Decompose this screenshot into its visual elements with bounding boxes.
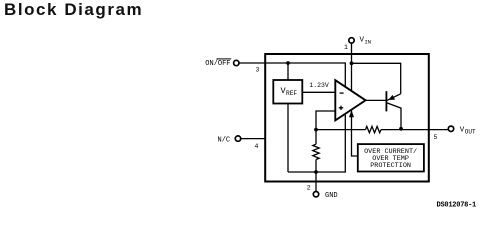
svg-text:OUT: OUT — [465, 129, 476, 136]
terminal VIN pin 1 — [349, 38, 354, 43]
protection block box — [358, 144, 424, 171]
wire amp minus input from VREF — [302, 91, 336, 93]
title "Block Diagram" — [4, 0, 143, 20]
terminal VOUT pin 5 — [448, 126, 453, 131]
transistor Q1 emitter diagonal — [387, 94, 401, 101]
terminal GND pin 2 — [313, 192, 318, 197]
wire VREF tap from ON/OFF line — [287, 63, 289, 80]
junction dot output — [399, 127, 403, 131]
wire VREF bottom to ground rail — [287, 104, 289, 173]
junction dot ground — [314, 170, 318, 174]
svg-text:3: 3 — [256, 66, 260, 73]
junction node feedback — [314, 128, 318, 132]
arrow protection into op-amp — [349, 110, 354, 117]
junction dot ON/OFF-VREF — [286, 61, 290, 65]
svg-text:1.23V: 1.23V — [309, 82, 329, 89]
svg-text:IN: IN — [365, 39, 372, 46]
wire base lead from amp output to Q1 — [366, 99, 386, 101]
terminal N/C pin 4 — [235, 136, 240, 141]
wire feedback node down to R2 — [315, 130, 317, 172]
wire GND terminal drop pin 2 — [315, 172, 317, 191]
transistor Q1 base bar — [385, 91, 387, 111]
svg-text:5: 5 — [434, 134, 438, 141]
transistor Q1 collector to output node — [387, 103, 401, 129]
IC outer box — [265, 54, 429, 182]
VREF box — [273, 80, 302, 104]
wire output rail to VOUT pin 5 — [316, 129, 448, 131]
resistor R2 feedback bottom (vertical) — [313, 144, 319, 159]
resistor R1 feedback top (horizontal) — [366, 126, 381, 132]
op-amp plus input symbol — [339, 106, 343, 110]
svg-text:4: 4 — [255, 143, 259, 150]
junction dot VIN — [350, 61, 354, 65]
svg-text:N/C: N/C — [218, 137, 231, 145]
svg-text:2: 2 — [307, 185, 311, 192]
wire N/C pin 4 stub — [241, 138, 266, 140]
svg-text:ON/OFF: ON/OFF — [205, 60, 230, 68]
wire ground rail and amp ground leg — [288, 104, 345, 172]
svg-text:REF: REF — [286, 90, 297, 97]
arrow PNP emitter of Q1 — [388, 95, 395, 100]
wire amp plus input from feedback node — [316, 111, 336, 130]
wire protection block to amp shutdown — [352, 104, 358, 156]
overline over OFF — [217, 58, 232, 60]
wire VIN rail to pass transistor emitter — [352, 63, 401, 94]
svg-text:DS012078-1: DS012078-1 — [437, 201, 477, 209]
svg-text:PROTECTION: PROTECTION — [370, 162, 411, 170]
op-amp minus input symbol — [340, 92, 344, 94]
wire ON/OFF pin 3 into box, down to error amp top — [239, 63, 345, 100]
svg-text:1: 1 — [344, 44, 348, 51]
svg-text:GND: GND — [325, 192, 338, 200]
wire VIN drop from terminal through box top to amp — [351, 43, 353, 100]
terminal ON/OFF pin 3 — [234, 60, 239, 65]
op-amp U1 error amplifier triangle — [335, 80, 365, 120]
